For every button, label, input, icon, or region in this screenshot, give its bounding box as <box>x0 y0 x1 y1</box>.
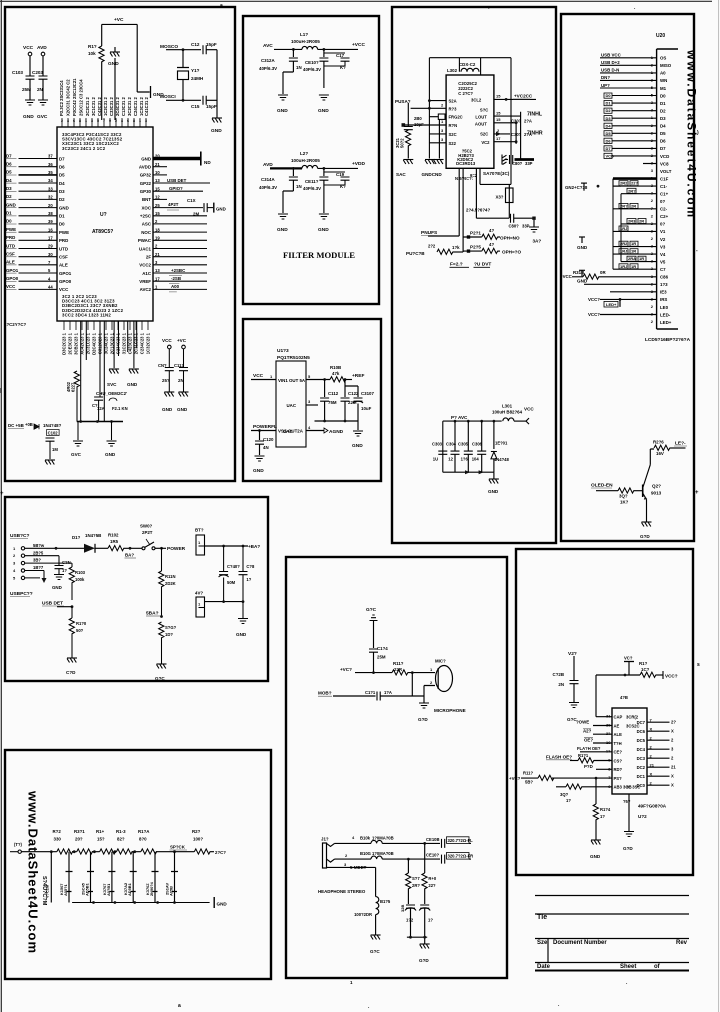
svg-text:31C2C23 1: 31C2C23 1 <box>122 332 127 354</box>
svg-text:3B?: 3B? <box>33 558 41 563</box>
svg-text:D6: D6 <box>59 165 65 170</box>
capacitor C113 <box>174 363 188 392</box>
svg-text:2?2: 2?2 <box>428 244 436 249</box>
svg-text:2R: 2R <box>631 203 636 208</box>
capacitor C2 <box>92 397 128 422</box>
svg-text:VCC: VCC <box>253 373 264 379</box>
svg-text:1R: 1R <box>639 256 644 261</box>
svg-text:s: s <box>697 662 700 668</box>
svg-text:+0B: +0B <box>25 422 33 427</box>
svg-text:1?: 1? <box>606 749 611 754</box>
svg-text:GP22: GP22 <box>140 181 152 186</box>
svg-text:R1?: R1? <box>639 661 648 666</box>
svg-text:4?: 4? <box>489 228 494 233</box>
svg-text:C?D: C?D <box>66 670 76 675</box>
svg-text:100uH-2R005: 100uH-2R005 <box>291 39 320 44</box>
top pin stubs of U2 <box>62 118 146 127</box>
svg-text:VCC: VCC <box>59 287 69 292</box>
svg-text:4: 4 <box>67 119 69 123</box>
wire data rows with net flags <box>604 93 657 159</box>
svg-text:3A?: 3A? <box>533 239 542 244</box>
resistor R102 <box>108 533 142 559</box>
svg-text:1?0MA?0B: 1?0MA?0B <box>372 835 394 840</box>
svg-text:D5: D5 <box>606 131 612 136</box>
svg-text:3C23C2 24C1 2 1C2: 3C23C2 24C1 2 1C2 <box>62 146 106 151</box>
svg-text:3: 3 <box>91 119 93 123</box>
connector USB pins <box>13 546 59 581</box>
block frame: audio <box>286 557 507 978</box>
block frame: codec <box>392 7 556 543</box>
svg-text:1C32C23 1: 1C32C23 1 <box>146 332 151 354</box>
wire +VCC out <box>494 94 536 101</box>
svg-text:6227: 6227 <box>71 382 76 392</box>
svg-text:1?: 1? <box>600 814 605 819</box>
svg-text:49F?G08?0A: 49F?G08?0A <box>638 804 667 809</box>
svg-text:C234C23 1: C234C23 1 <box>140 332 145 354</box>
svg-text:XOC: XOC <box>141 205 151 210</box>
ground with capacitor C805 <box>502 155 534 167</box>
svg-text:GND: GND <box>216 207 226 212</box>
svg-text:G?D: G?D <box>419 958 429 963</box>
connector T1 <box>10 842 23 853</box>
svg-text:Date: Date <box>537 964 551 970</box>
svg-text:VCC?: VCC? <box>588 297 600 302</box>
transistor K1507 <box>59 852 73 903</box>
wire AVC to +VCC <box>263 42 365 51</box>
svg-text:3Q?: 3Q? <box>560 792 569 797</box>
wire AVD to +VDD <box>263 161 365 170</box>
resistor R31B <box>560 270 657 279</box>
block frame: resistor ladder <box>5 750 271 979</box>
svg-text:L302: L302 <box>447 68 458 73</box>
net +VC / resistor R118 <box>509 771 612 785</box>
block frame: power/usb <box>5 497 268 681</box>
inductor L1 <box>291 32 320 49</box>
svg-text:+2SBC: +2SBC <box>171 268 186 273</box>
svg-text:GND: GND <box>177 407 188 412</box>
svg-text:15: 15 <box>496 94 501 99</box>
svg-text:PWE: PWE <box>59 230 69 235</box>
svg-text:3CB2C23 1: 3CB2C23 1 <box>74 332 79 355</box>
svg-text:DC5: DC5 <box>637 738 646 743</box>
capacitor C310 <box>303 49 328 88</box>
svg-text:ND: ND <box>204 160 211 165</box>
svg-text:15: 15 <box>496 110 501 115</box>
svg-text:USB D-N: USB D-N <box>601 68 619 73</box>
svg-text:20: 20 <box>48 203 53 208</box>
wire gnd arrow <box>42 571 47 584</box>
svg-text:C102: C102 <box>48 430 59 435</box>
svg-text:U1?3: U1?3 <box>277 348 289 354</box>
resistor R1?A <box>138 829 157 854</box>
wire bottom bus <box>72 901 210 904</box>
svg-text:4: 4 <box>121 119 123 123</box>
svg-text:GND: GND <box>488 489 499 494</box>
svg-text:104: 104 <box>472 457 480 462</box>
svg-text:1: 1 <box>85 119 87 123</box>
transistor K3707 <box>102 852 116 903</box>
label MICROPHONE <box>434 708 466 713</box>
svg-text:D0: D0 <box>606 93 612 98</box>
bottom pin labels <box>62 332 151 355</box>
svg-text:1C?: 1C? <box>641 667 650 672</box>
svg-text:C?40?: C?40? <box>227 564 240 569</box>
resistor R140 branch right <box>422 843 437 904</box>
block frame: flash <box>516 549 693 875</box>
svg-text:U?: U? <box>100 212 107 218</box>
svg-text:1D?: 1D? <box>165 632 173 637</box>
svg-text:+: + <box>0 491 4 497</box>
ground <box>107 369 119 387</box>
svg-text:S2C: S2C <box>480 132 488 137</box>
svg-text:(T?): (T?) <box>14 842 23 847</box>
svg-text:WN: WN <box>660 78 667 83</box>
capacitor C2N <box>52 556 71 590</box>
svg-text:1RJ: 1RJ <box>620 264 627 269</box>
svg-text:2R2: 2R2 <box>620 181 628 186</box>
svg-text:40P/6.3V: 40P/6.3V <box>303 67 321 72</box>
svg-text:a: a <box>220 3 223 9</box>
wire ladder <box>21 850 214 853</box>
svg-text:L2?: L2? <box>300 151 308 156</box>
svg-text:2?: 2? <box>671 720 676 725</box>
svg-text:R+0: R+0 <box>428 876 436 881</box>
svg-text:1R: 1R <box>631 241 636 246</box>
node VCC flag <box>524 407 534 425</box>
svg-text:P? AVC: P? AVC <box>451 415 468 420</box>
svg-text:D3: D3 <box>59 189 65 194</box>
svg-text:CSF: CSF <box>6 252 15 257</box>
svg-text:J1?: J1? <box>321 837 329 842</box>
wire <box>30 56 43 76</box>
svg-text:PRD: PRD <box>59 238 68 243</box>
svg-text:+REF: +REF <box>352 373 364 379</box>
svg-text:7: 7 <box>103 119 105 123</box>
svg-text:LED-: LED- <box>660 312 671 317</box>
svg-text:31: 31 <box>606 714 611 719</box>
svg-text:1B?7: 1B?7 <box>33 565 44 570</box>
svg-text:VSS OUT2A: VSS OUT2A <box>278 429 304 434</box>
svg-text:SW0?: SW0? <box>140 524 153 529</box>
svg-text:C17: C17 <box>336 53 345 58</box>
diode D1 1N4?5B <box>72 533 108 553</box>
svg-text:A1C: A1C <box>142 271 152 276</box>
svg-text:LE?-: LE?- <box>675 441 686 447</box>
svg-text:D2: D2 <box>59 197 65 202</box>
svg-text:20?: 20? <box>75 837 83 842</box>
capacitor C240 <box>219 546 241 602</box>
svg-text:P3CC42 2SC13C21: P3CC42 2SC13C21 <box>72 78 77 116</box>
svg-text:D6: D6 <box>606 138 612 143</box>
svg-text:50?2: 50?2 <box>400 138 405 148</box>
ground <box>108 47 120 120</box>
wire BNT / capacitor C1X <box>153 198 203 216</box>
svg-text:C80?: C80? <box>509 224 520 229</box>
svg-text:L1?: L1? <box>300 32 308 37</box>
svg-text:DC0: DC0 <box>637 783 646 788</box>
svg-text:VCD: VCD <box>606 154 615 159</box>
svg-text:29: 29 <box>48 244 53 249</box>
ground <box>66 658 77 675</box>
wire bus <box>77 420 123 423</box>
svg-text:LCD5?16BP?2?6?A: LCD5?16BP?2?6?A <box>645 337 691 343</box>
svg-text:R1-3: R1-3 <box>116 829 126 834</box>
svg-text:GND: GND <box>211 128 222 134</box>
label 49FG0800A U32 <box>638 804 667 820</box>
ground <box>422 160 444 178</box>
svg-text:1?: 1? <box>246 577 251 582</box>
svg-text:R103: R103 <box>75 570 86 575</box>
IC pin VSS OUT2A <box>278 429 304 434</box>
svg-text:35: 35 <box>48 170 53 175</box>
svg-text:FILTER MODULE: FILTER MODULE <box>283 250 355 260</box>
net SP1CK / resistor R2? <box>170 829 227 855</box>
svg-text:3: 3 <box>145 119 147 123</box>
capacitor C311 <box>303 168 328 213</box>
svg-text:1E?01: 1E?01 <box>495 441 508 446</box>
svg-text:OS: OS <box>660 56 666 61</box>
svg-text:C303: C303 <box>432 442 443 447</box>
transistor Q20 9013 <box>643 465 662 522</box>
svg-text:D7: D7 <box>606 146 612 151</box>
resistor R3Q <box>618 488 643 505</box>
ground <box>155 664 167 681</box>
svg-text:D3: D3 <box>660 116 666 121</box>
svg-text:75M: 75M <box>328 400 337 405</box>
svg-text:C12: C12 <box>191 42 200 47</box>
svg-text:C1-: C1- <box>660 184 668 189</box>
capacitor C17 <box>324 53 350 70</box>
svg-text:USB?C?: USB?C? <box>10 533 30 539</box>
wire row5 <box>494 128 510 136</box>
svg-text:AVD: AVD <box>37 45 47 51</box>
net POWER <box>162 546 186 552</box>
svg-text:POWERFL: POWERFL <box>253 424 277 430</box>
svg-text:330: 330 <box>54 837 62 842</box>
wire row6 <box>494 136 518 143</box>
wire OE row <box>584 738 612 744</box>
ground flag <box>214 897 227 908</box>
svg-text:B1?5: B1?5 <box>380 899 391 904</box>
svg-text:PNUFS: PNUFS <box>421 230 438 236</box>
svg-text:1?k: 1?k <box>452 245 460 250</box>
svg-text:PRD: PRD <box>6 235 15 240</box>
net VBAT <box>146 611 163 618</box>
ground <box>127 369 139 387</box>
svg-text:R1?0: R1?0 <box>76 621 87 626</box>
svg-text:9=2: 9=2 <box>470 173 478 178</box>
svg-text:16V: 16V <box>656 451 664 456</box>
svg-text:+VCC: +VCC <box>352 42 365 48</box>
svg-text:10uF: 10uF <box>361 406 372 411</box>
wire <box>610 291 657 293</box>
svg-text:17: 17 <box>155 276 160 281</box>
svg-text:Document Number: Document Number <box>553 940 607 946</box>
wire <box>102 24 138 46</box>
svg-text:21: 21 <box>155 252 160 257</box>
IC U30 codec box <box>446 75 494 168</box>
svg-text:1N: 1N <box>296 184 302 189</box>
svg-text:S2A: S2A <box>449 99 457 104</box>
ground <box>565 183 599 191</box>
svg-text:VCC: VCC <box>162 338 172 343</box>
watermark www.DataSheet4U.com <box>26 790 41 954</box>
capacitor CE10B boxed net row1 <box>426 837 473 848</box>
svg-text:15: 15 <box>496 117 501 122</box>
svg-text:MOSCI: MOSCI <box>160 94 176 100</box>
ground <box>236 619 248 638</box>
svg-text:G?D: G?D <box>418 717 428 722</box>
svg-text:2CE3C23 1: 2CE3C23 1 <box>68 332 73 354</box>
ground flag <box>151 86 165 98</box>
svg-text:GND: GND <box>162 407 173 412</box>
net PUSAC <box>395 99 446 110</box>
capacitor C305 <box>511 132 532 137</box>
resistor R1 <box>88 44 104 62</box>
svg-text:L301: L301 <box>502 404 513 409</box>
wire battery + <box>205 544 261 549</box>
svg-text:D5: D5 <box>59 173 65 178</box>
svg-text:S22: S22 <box>449 141 457 146</box>
capacitor C104 <box>369 646 388 673</box>
op IC U2 AT89C52 MCU box <box>57 127 153 321</box>
svg-text:OE?: OE? <box>584 738 593 743</box>
capacitor bypass box row3 <box>429 114 445 159</box>
title block <box>535 896 689 971</box>
svg-text:D0: D0 <box>660 93 666 98</box>
wire EA <box>137 24 150 92</box>
crystal circuit: net MOSCO <box>160 44 201 51</box>
wire row VCD <box>643 163 657 165</box>
svg-text:1?: 1? <box>428 918 433 923</box>
capacitor CE10? boxed net row2 <box>426 853 473 864</box>
svg-text:+VC: +VC <box>177 338 187 343</box>
svg-text:IRS: IRS <box>660 297 667 302</box>
svg-text:40P/6.3V: 40P/6.3V <box>259 66 277 71</box>
svg-text:LED+: LED+ <box>660 320 672 325</box>
wire VCC in <box>251 373 276 380</box>
transistor 2S1AV <box>165 852 179 903</box>
svg-text:LOUT: LOUT <box>475 114 487 119</box>
svg-text:VCC2: VCC2 <box>139 263 151 268</box>
svg-text:of: of <box>654 964 661 970</box>
svg-text:40P/6.3V: 40P/6.3V <box>303 186 321 191</box>
wires below U30 <box>455 168 511 252</box>
svg-text:GND: GND <box>318 108 329 114</box>
svg-text:D0: D0 <box>6 219 12 224</box>
svg-text:G?C: G?C <box>370 949 380 954</box>
bottom pin stubs of U2 <box>64 321 148 330</box>
svg-text:10: 10 <box>155 170 160 175</box>
top pin labels <box>59 78 149 123</box>
svg-text:GND: GND <box>52 585 62 590</box>
svg-text:D6: D6 <box>660 139 666 144</box>
svg-text:SVC: SVC <box>107 382 117 387</box>
svg-text:R2?: R2? <box>192 829 201 834</box>
svg-text:LE0: LE0 <box>660 305 669 310</box>
svg-text:3CR(2: 3CR(2 <box>626 715 639 720</box>
svg-text:D5: D5 <box>660 131 666 136</box>
svg-text:MIC?: MIC? <box>435 659 446 664</box>
svg-text:7INHL: 7INHL <box>527 112 543 118</box>
svg-text:F=2.?: F=2.? <box>450 262 463 268</box>
svg-text:2R3: 2R3 <box>628 219 636 224</box>
svg-text:S?7: S?7 <box>412 876 420 881</box>
svg-text:A00: A00 <box>171 284 180 289</box>
wire FLASH CE row <box>577 746 612 752</box>
ground <box>529 220 541 244</box>
svg-text:12A: 12A <box>97 406 105 411</box>
svg-text:GPO0: GPO0 <box>59 279 72 284</box>
svg-text:CHU_OEM2C2': CHU_OEM2C2' <box>96 391 127 396</box>
svg-text:A05B: A05B <box>169 886 174 896</box>
svg-text:P2?5: P2?5 <box>470 245 481 250</box>
svg-text:+VC2CC: +VC2CC <box>514 94 533 99</box>
left pin wires of U2 <box>6 153 72 292</box>
svg-text:2C4C31 2: 2C4C31 2 <box>115 96 120 116</box>
net VCC <box>588 312 657 317</box>
resistor R104 <box>66 371 79 422</box>
resistor R104 <box>593 778 611 840</box>
svg-text:320.7?2Ω-FR: 320.7?2Ω-FR <box>448 854 474 859</box>
svg-text:4?: 4? <box>489 242 494 247</box>
svg-text:C122: C122 <box>348 391 359 396</box>
svg-text:GND: GND <box>277 108 288 114</box>
svg-text:Rev: Rev <box>676 940 688 946</box>
svg-text:2SCC12 C3 23CC4: 2SCC12 C3 23CC4 <box>79 79 84 116</box>
svg-text:4N4?48: 4N4?48 <box>494 457 510 462</box>
svg-text:DC +5B: DC +5B <box>8 423 24 428</box>
wire <box>30 79 43 100</box>
resistor R1+ <box>96 829 116 854</box>
svg-text:D4: D4 <box>59 181 65 186</box>
block frame: MCU section <box>5 7 235 481</box>
svg-text:+BA?: +BA? <box>248 544 260 549</box>
svg-text:2M: 2M <box>193 212 199 217</box>
svg-text:C19: C19 <box>336 172 345 177</box>
svg-text:19: 19 <box>155 236 160 241</box>
svg-text:Y1?: Y1? <box>191 68 200 73</box>
svg-text:8: 8 <box>79 119 81 123</box>
svg-text:D6: D6 <box>6 162 12 167</box>
svg-text:100k: 100k <box>75 577 85 582</box>
resistor R11N <box>159 548 176 616</box>
IC U13 regulator <box>276 348 310 447</box>
svg-text:4?B: 4?B <box>620 695 628 700</box>
microphone MIC1 <box>430 659 453 692</box>
svg-text:12: 12 <box>155 195 160 200</box>
svg-text:R2?6: R2?6 <box>653 440 664 445</box>
svg-text:6: 6 <box>127 119 129 123</box>
label LCD 16BP <box>645 337 691 343</box>
svg-text:1U: 1U <box>433 457 438 462</box>
svg-text:MISO: MISO <box>660 63 672 68</box>
svg-text:DC1: DC1 <box>637 774 646 779</box>
ground <box>577 237 588 250</box>
node VCC <box>23 45 34 56</box>
svg-text:C30?: C30? <box>511 132 522 137</box>
svg-text:R10B: R10B <box>330 365 341 370</box>
svg-text:OPH=?O: OPH=?O <box>502 250 521 255</box>
ground <box>318 214 329 233</box>
capacitor C17 right <box>419 905 433 944</box>
svg-text:DC7: DC7 <box>637 720 646 725</box>
capacitor C280 <box>404 103 424 130</box>
ground <box>577 270 588 283</box>
svg-text:C15: C15 <box>191 104 200 109</box>
svg-text:D5: D5 <box>6 170 12 175</box>
svg-text:2RA: 2RA <box>628 256 636 261</box>
